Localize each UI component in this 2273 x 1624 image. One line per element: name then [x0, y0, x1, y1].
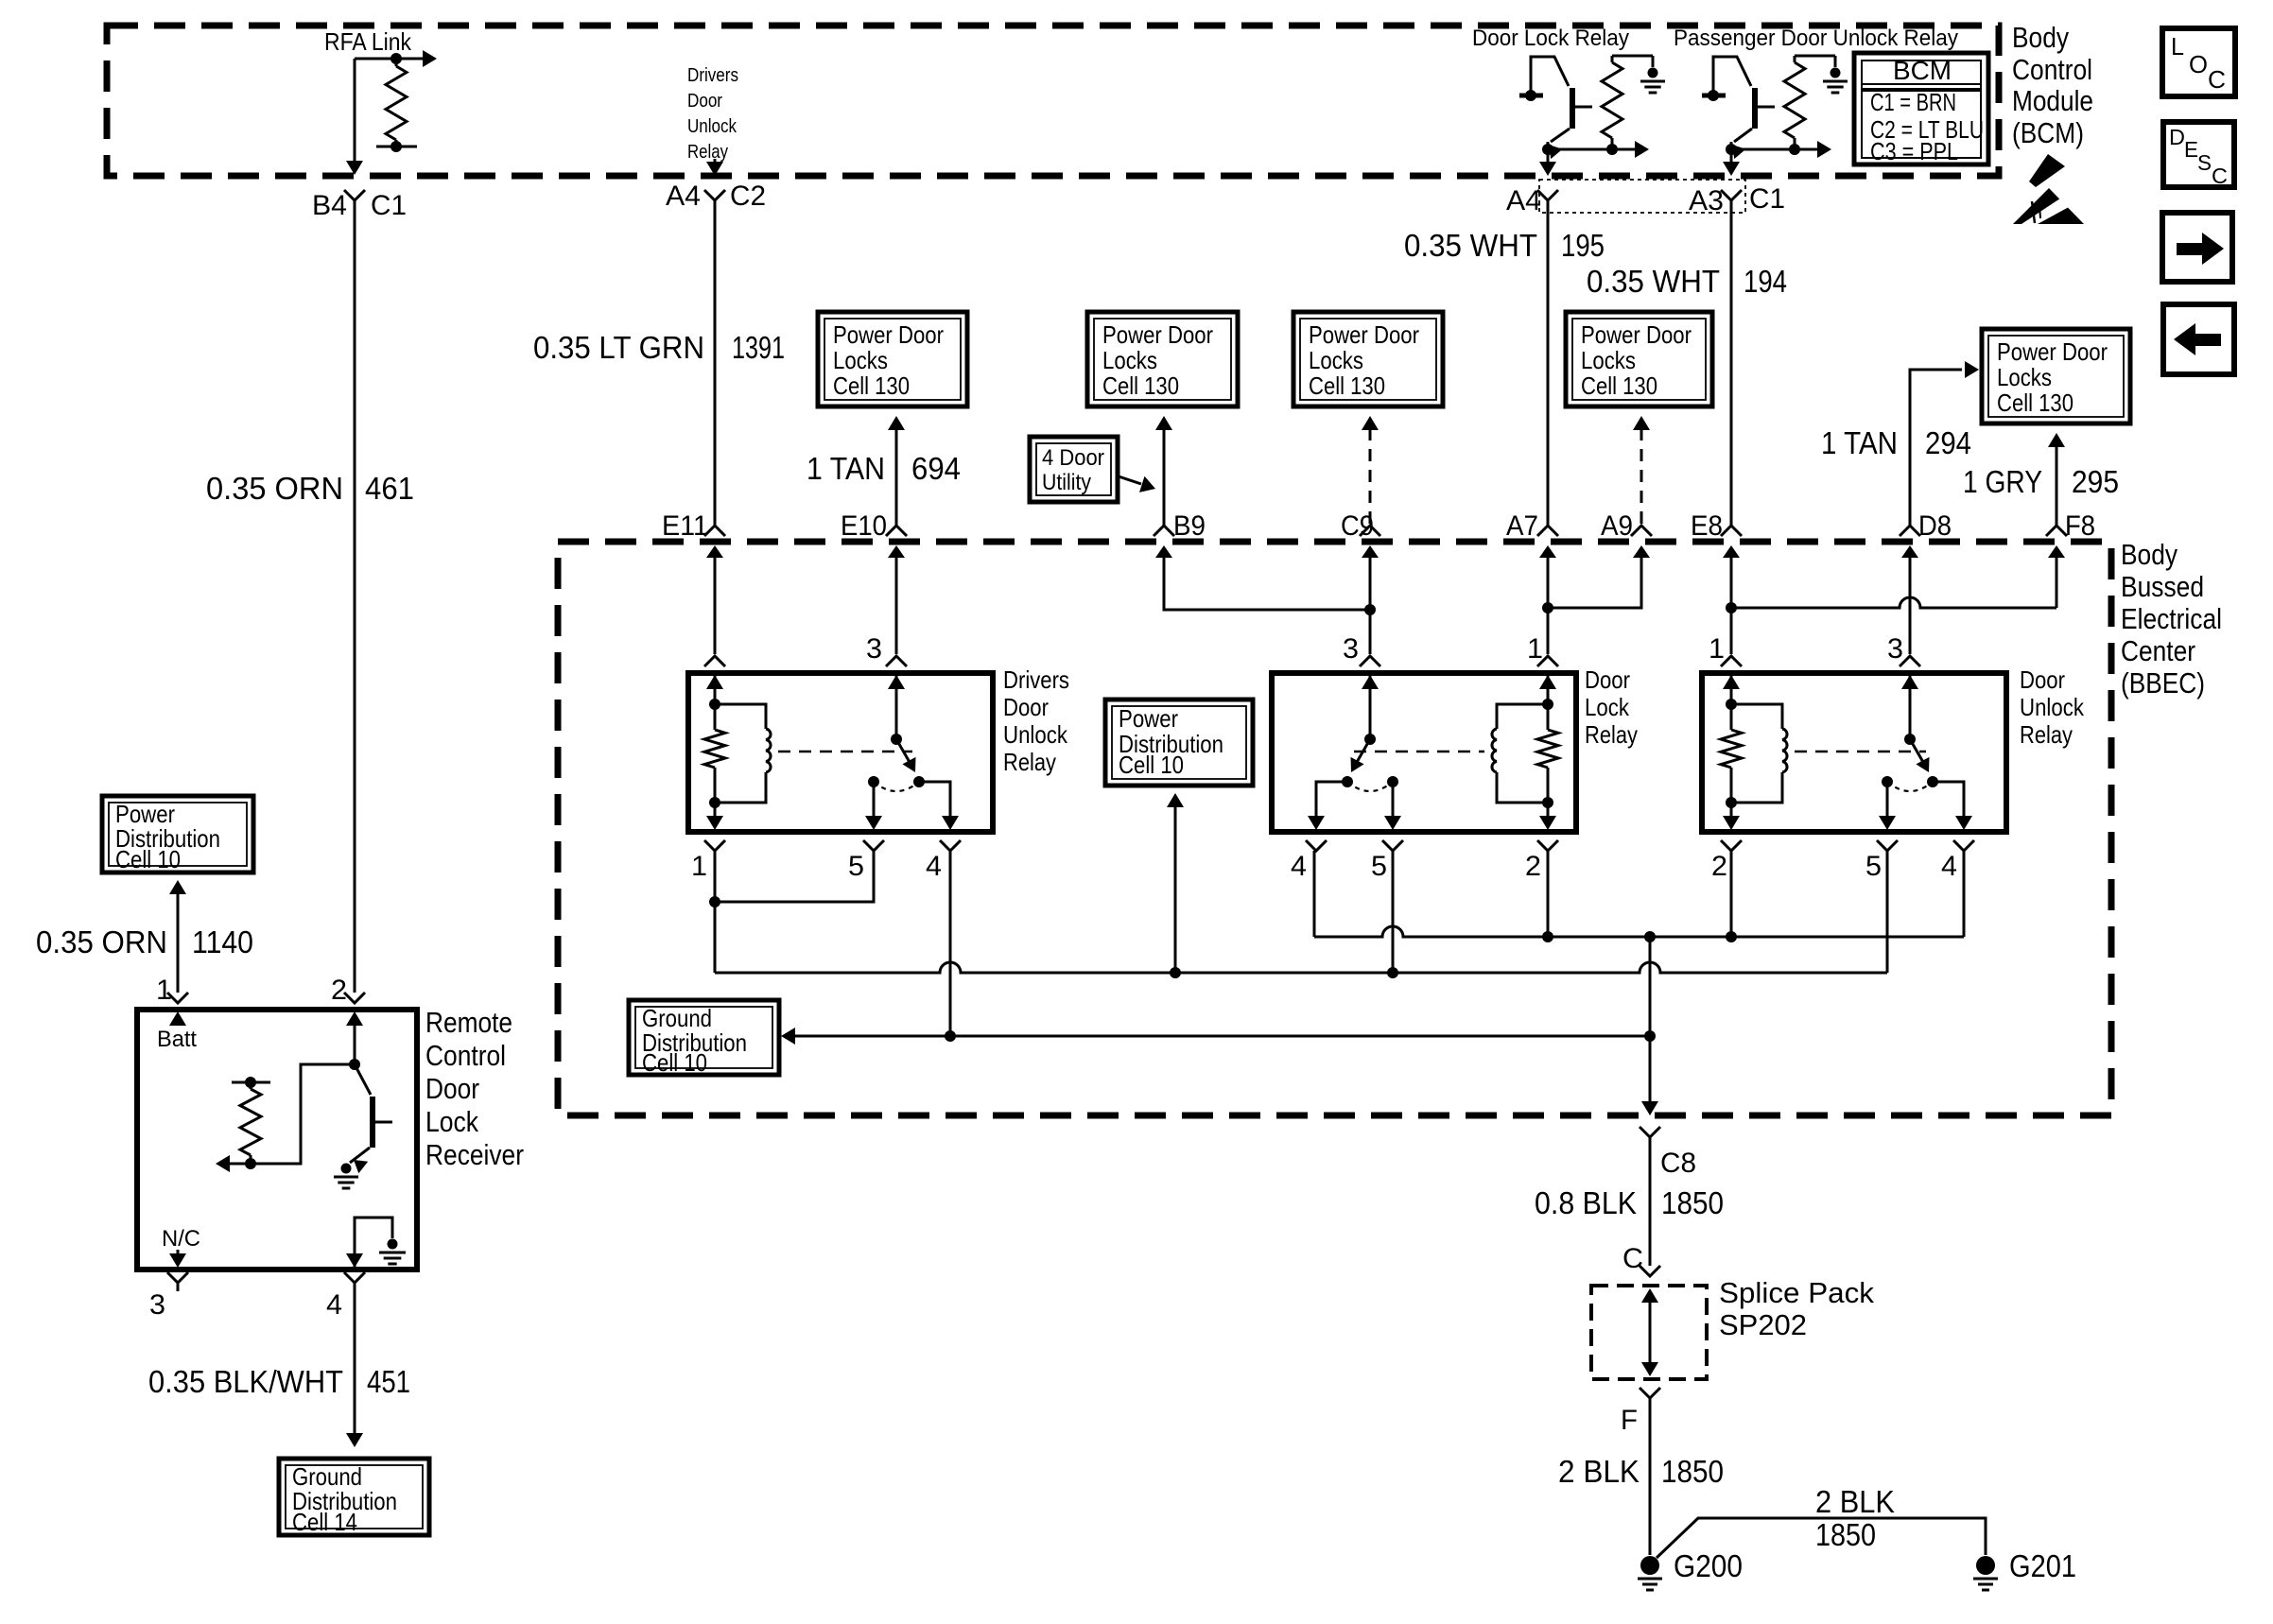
- wire 1391 from C2 to BBEC E11: [714, 200, 717, 526]
- receiver pin4 ground hook: [355, 1218, 392, 1268]
- svg-text:Module: Module: [2012, 84, 2093, 117]
- svg-text:Remote: Remote: [425, 1006, 512, 1039]
- transistor Q1 Door Lock Relay driver: [1519, 57, 1612, 176]
- svg-text:0.8 BLK: 0.8 BLK: [1535, 1185, 1637, 1220]
- wire Power Distribution feed: [1167, 793, 1184, 973]
- wire D8 to Power Door Locks (1 TAN 294): [1910, 361, 1979, 526]
- resistor R2 (Q2 collector pull): [1784, 56, 1805, 155]
- Power Door Locks Cell 130 box (E10): [818, 312, 967, 406]
- left arrow icon: [2174, 323, 2221, 355]
- svg-text:Body: Body: [2012, 21, 2069, 54]
- svg-text:1 GRY: 1 GRY: [1963, 464, 2042, 499]
- svg-text:Unlock: Unlock: [687, 116, 737, 137]
- wire K3 pin4 down (line1 end): [1963, 851, 1966, 937]
- wire E8 down: [1730, 553, 1733, 608]
- relay K3 Door Unlock Relay pin label 3 top: [1887, 633, 1903, 665]
- svg-text:Drivers: Drivers: [1003, 665, 1069, 694]
- svg-text:451: 451: [367, 1364, 410, 1399]
- svg-text:RFA Link: RFA Link: [324, 27, 412, 56]
- svg-text:G201: G201: [2009, 1548, 2076, 1583]
- Ground Distribution Cell 14 box: [279, 1459, 429, 1536]
- wire K3 pin5 down (line2 end): [1886, 851, 1889, 973]
- arrow into BCM boundary at B4: [346, 161, 363, 175]
- wire R3 to Q3 collector: [251, 1064, 355, 1164]
- relay K2 Door Lock Relay contact throw arc: [1347, 782, 1393, 791]
- connector F: [1640, 1388, 1660, 1398]
- svg-text:461: 461: [365, 471, 414, 506]
- pin label A3: [1689, 185, 1724, 216]
- connector A4 C2: [704, 190, 725, 200]
- relay K3 Door Unlock Relay pin5 connector: [1877, 840, 1898, 851]
- svg-text:Locks: Locks: [1581, 346, 1636, 374]
- svg-text:4: 4: [1291, 851, 1307, 882]
- wire label 0.35 BLK/WHT 451: [148, 1364, 410, 1399]
- wire G200 to G201: [1657, 1518, 1986, 1558]
- svg-text:694: 694: [911, 451, 961, 486]
- svg-text:A4: A4: [1506, 185, 1541, 216]
- relay K1 Drivers Door Unlock Relay switch: [886, 656, 916, 772]
- pin label 1 (receiver): [156, 975, 172, 1006]
- node line3-C8 junction: [1644, 1030, 1656, 1042]
- svg-text:Lock: Lock: [425, 1105, 478, 1138]
- relay K3 Door Unlock Relay switch: [1900, 656, 1930, 772]
- wire R2 top: [1795, 56, 1835, 67]
- node line3-K1pin4 junction: [945, 1030, 956, 1042]
- receiver pin3 exit arrow: [169, 1250, 186, 1268]
- resistor RFA link: [386, 59, 407, 147]
- svg-text:1 TAN: 1 TAN: [807, 451, 885, 486]
- svg-text:0.35 BLK/WHT: 0.35 BLK/WHT: [148, 1364, 343, 1399]
- svg-text:Cell 10: Cell 10: [1119, 751, 1184, 779]
- Ground Distribution Cell 10 box (BBEC): [629, 1000, 779, 1077]
- relay K1 Drivers Door Unlock Relay coil bottom connector: [704, 840, 725, 851]
- resistor R1 (Q1 collector pull): [1602, 56, 1622, 155]
- pin label 4 (receiver): [326, 1289, 342, 1321]
- connector receiver pin2: [344, 993, 365, 1003]
- svg-text:1: 1: [156, 975, 172, 1006]
- svg-text:0.35 ORN: 0.35 ORN: [36, 924, 167, 959]
- wire 1140 to Power Distribution: [169, 880, 186, 993]
- DESC letters: [2169, 125, 2228, 188]
- relay K3 Door Unlock Relay box: [1702, 673, 2006, 832]
- wire label 1850 (right): [1815, 1517, 1876, 1552]
- svg-text:(BBEC): (BBEC): [2121, 666, 2205, 700]
- svg-text:C: C: [1622, 1243, 1643, 1274]
- svg-text:Locks: Locks: [1309, 346, 1363, 374]
- svg-text:Unlock: Unlock: [2020, 693, 2085, 721]
- connector receiver pin1: [167, 993, 188, 1003]
- relay K1 Drivers Door Unlock Relay box: [688, 673, 993, 832]
- svg-text:1850: 1850: [1815, 1517, 1876, 1552]
- relay K1 Drivers Door Unlock Relay name label: [1003, 665, 1069, 776]
- pin label D8: [1918, 510, 1952, 542]
- relay K1 Drivers Door Unlock Relay pin label 5 bottom: [848, 851, 864, 882]
- svg-text:E: E: [2184, 137, 2198, 162]
- svg-text:4 Door: 4 Door: [1042, 445, 1104, 471]
- svg-text:SP202: SP202: [1719, 1308, 1807, 1341]
- Power Door Locks Cell 130 box (B9): [1087, 312, 1238, 406]
- Splice Pack SP202 dashed box: [1591, 1286, 1707, 1379]
- svg-text:1391: 1391: [732, 330, 785, 365]
- resistor R3 receiver: [232, 1077, 270, 1164]
- svg-text:Relay: Relay: [687, 142, 728, 163]
- relay K2 Door Lock Relay pin5 connector: [1382, 840, 1403, 851]
- node line2-K2pin5 junction: [1387, 967, 1398, 978]
- pin label N/C: [162, 1226, 200, 1252]
- 4 Door Utility box: [1030, 437, 1118, 502]
- arrow RFA link to right: [396, 50, 437, 67]
- relay K3 Door Unlock Relay coil bottom connector: [1721, 840, 1742, 851]
- wire B9 down and over to C9: [1164, 553, 1370, 610]
- relay K3 Door Unlock Relay contact throw arc: [1887, 782, 1933, 791]
- pin label C (splice in): [1622, 1243, 1643, 1274]
- bus line1 (K2 pin4 to K3 pin4) with hops: [1314, 926, 1964, 937]
- wire K1 pin4 down: [949, 851, 952, 1036]
- svg-text:B4: B4: [312, 190, 347, 221]
- BCM module name label: [2012, 21, 2093, 149]
- relay K1 Drivers Door Unlock Relay pin5 wire: [865, 782, 882, 830]
- svg-text:5: 5: [1371, 851, 1387, 882]
- svg-text:2: 2: [331, 975, 347, 1006]
- ground G-Q3: [334, 1164, 358, 1189]
- bus line2 (K1 pin1 to K3 pin5) with hops: [715, 962, 1887, 973]
- node line1-C8 junction: [1644, 931, 1656, 942]
- node RFA junction: [390, 53, 402, 64]
- svg-text:C: C: [2212, 164, 2228, 188]
- svg-text:O: O: [2189, 50, 2208, 78]
- svg-text:5: 5: [1865, 851, 1882, 882]
- ground label G201: [2009, 1548, 2076, 1583]
- Power Door Locks Cell 130 box (A9): [1566, 312, 1712, 406]
- relay K2 Door Lock Relay pin label 1 top: [1527, 633, 1543, 665]
- relay K2 Door Lock Relay pin5 wire: [1384, 782, 1401, 830]
- svg-text:D: D: [2169, 125, 2185, 149]
- node B9-C9 junction: [1364, 604, 1376, 615]
- right arrow box: [2162, 213, 2232, 282]
- wire E10 to Power Door Locks: [888, 416, 905, 526]
- wire R1 top: [1612, 56, 1653, 67]
- node E8 junction: [1726, 602, 1737, 613]
- svg-text:Splice Pack: Splice Pack: [1719, 1276, 1875, 1309]
- relay K3 Door Unlock Relay linkage dashed: [1795, 751, 1926, 753]
- svg-text:Control: Control: [2012, 53, 2092, 86]
- wire inside splice pack: [1641, 1288, 1658, 1376]
- svg-text:294: 294: [1925, 425, 1971, 460]
- wire B9 to Power Door Locks: [1155, 416, 1172, 526]
- svg-text:C1: C1: [371, 190, 407, 221]
- relay K2 Door Lock Relay coil bottom connector: [1537, 840, 1558, 851]
- svg-text:Receiver: Receiver: [425, 1138, 524, 1171]
- svg-text:F8: F8: [2065, 510, 2095, 542]
- connector C8 (BBEC bottom): [1640, 1127, 1660, 1137]
- pin label A4 (BCM): [1506, 185, 1541, 216]
- svg-text:Power Door: Power Door: [833, 320, 944, 349]
- wire label 0.8 BLK 1850: [1535, 1185, 1724, 1220]
- relay K3 Door Unlock Relay pin label 2 bottom: [1711, 851, 1727, 882]
- svg-text:0.35 ORN: 0.35 ORN: [206, 471, 343, 506]
- svg-text:C2: C2: [730, 181, 766, 212]
- node R3 bottom: [245, 1158, 256, 1169]
- svg-text:1850: 1850: [1661, 1454, 1724, 1489]
- BCM table row C3: [1870, 137, 1958, 165]
- pin label 2 (receiver): [331, 975, 347, 1006]
- svg-text:Body: Body: [2121, 538, 2178, 571]
- svg-text:(BCM): (BCM): [2012, 116, 2084, 149]
- svg-text:Door: Door: [425, 1072, 479, 1105]
- wire K1 pin5 link: [715, 851, 874, 902]
- wire D8 down to Door Unlock Relay pin 3: [1909, 553, 1912, 654]
- Power Door Locks Cell 130 box (C9): [1293, 312, 1443, 406]
- relay K1 Drivers Door Unlock Relay pin label 3 top: [866, 633, 882, 665]
- relay K1 Drivers Door Unlock Relay pin4 connector: [940, 840, 961, 851]
- svg-text:0.35 WHT: 0.35 WHT: [1404, 228, 1537, 263]
- wire C9 dashed to Power Door Locks: [1362, 416, 1379, 526]
- relay K3 Door Unlock Relay coil+resistor: [1721, 656, 1787, 830]
- svg-text:3: 3: [1343, 633, 1359, 665]
- left arrow box: [2163, 304, 2234, 374]
- wire label 0.35 WHT 194: [1587, 264, 1787, 299]
- svg-text:Door: Door: [1003, 693, 1049, 721]
- BCM Passenger Door Unlock Relay label: [1674, 26, 1958, 51]
- svg-text:E11: E11: [662, 510, 708, 542]
- svg-text:Door: Door: [2020, 665, 2065, 694]
- svg-text:Cell 130: Cell 130: [1309, 371, 1385, 400]
- svg-text:C: C: [2208, 65, 2226, 94]
- svg-text:F: F: [1621, 1405, 1638, 1436]
- relay K3 Door Unlock Relay name label: [2020, 665, 2085, 749]
- relay K2 Door Lock Relay box: [1272, 673, 1576, 832]
- pin label C1 (BCM): [1749, 183, 1785, 215]
- svg-text:Cell 130: Cell 130: [833, 371, 910, 400]
- BCM Door Lock Relay label: [1472, 26, 1629, 51]
- relay K1 Drivers Door Unlock Relay pin label 4 bottom: [926, 851, 942, 882]
- connector C9 (BBEC top): [1360, 526, 1380, 560]
- ground G-pin4: [379, 1239, 406, 1265]
- svg-text:S: S: [2197, 150, 2212, 175]
- svg-text:4: 4: [326, 1289, 342, 1321]
- svg-text:B9: B9: [1173, 510, 1206, 542]
- ground G201: [1973, 1556, 1998, 1590]
- right arrow icon: [2177, 233, 2224, 265]
- transistor Q2 Passenger Door Unlock Relay driver: [1702, 57, 1795, 176]
- connector D8 (BBEC top): [1900, 526, 1920, 560]
- connector E8 (BBEC top): [1721, 526, 1742, 560]
- receiver pin1 entry arrow: [169, 1011, 186, 1026]
- BBEC module name label: [2121, 538, 2222, 700]
- ground G-Q1: [1640, 68, 1665, 94]
- relay K2 Door Lock Relay pin label 4 bottom: [1291, 851, 1307, 882]
- wire Q2 output arrow: [1795, 141, 1831, 158]
- wire A9 link: [1548, 553, 1641, 608]
- transistor Q3 receiver: [350, 1064, 392, 1173]
- pin label A7: [1506, 510, 1538, 542]
- relay K3 Door Unlock Relay pin label 1 top: [1709, 633, 1725, 665]
- svg-text:4: 4: [926, 851, 942, 882]
- 4 Door Utility pointer arrow: [1119, 476, 1155, 492]
- relay K3 Door Unlock Relay pin4 connector: [1953, 840, 1974, 851]
- svg-text:Locks: Locks: [833, 346, 888, 374]
- wire label 0.35 WHT 195: [1404, 228, 1605, 263]
- connector A7 (BBEC top): [1537, 526, 1558, 560]
- pin label C9: [1341, 510, 1374, 542]
- wire K1 pin1 down: [714, 851, 717, 973]
- relay K1 Drivers Door Unlock Relay pin4 wire: [919, 782, 959, 830]
- DESC reference box: [2163, 122, 2234, 187]
- svg-text:3: 3: [149, 1289, 165, 1321]
- svg-text:Cell 14: Cell 14: [292, 1508, 357, 1536]
- relay K2 Door Lock Relay name label: [1585, 665, 1638, 749]
- wire label 2 BLK (right): [1815, 1484, 1895, 1519]
- wire F8 to Power Door Locks (1 GRY 295): [2048, 433, 2065, 526]
- connector A9 (BBEC top): [1631, 526, 1652, 560]
- svg-text:C1 = BRN: C1 = BRN: [1870, 88, 1956, 116]
- node line1-K2pin2 junction: [1542, 931, 1553, 942]
- wire RFA horizontal: [355, 58, 396, 60]
- svg-text:Control: Control: [425, 1039, 506, 1072]
- svg-text:3: 3: [1887, 633, 1903, 665]
- wire E8 to F8 link with hop over D8: [1731, 597, 2056, 608]
- svg-text:Batt: Batt: [157, 1027, 197, 1052]
- svg-text:1: 1: [1709, 633, 1725, 665]
- connector E11 (BBEC top): [704, 526, 725, 560]
- svg-text:Locks: Locks: [1997, 363, 2052, 391]
- relay K2 Door Lock Relay switch: [1351, 656, 1381, 772]
- svg-text:195: 195: [1561, 228, 1605, 263]
- ground G-Q2: [1823, 68, 1848, 94]
- wire K3 pin2 down: [1730, 851, 1733, 937]
- wire E8 to Door Unlock Relay pin 1: [1730, 608, 1733, 654]
- svg-text:G200: G200: [1674, 1548, 1743, 1583]
- pin label F8: [2065, 510, 2095, 542]
- svg-text:D8: D8: [1918, 510, 1952, 542]
- svg-text:Utility: Utility: [1042, 470, 1091, 495]
- ground label G200: [1674, 1548, 1743, 1583]
- svg-text:Door: Door: [687, 91, 722, 112]
- svg-text:1850: 1850: [1661, 1185, 1724, 1220]
- receiver pin2 entry arrow: [346, 1011, 363, 1064]
- svg-text:Cell 130: Cell 130: [1581, 371, 1657, 400]
- pin label A9: [1601, 510, 1633, 542]
- svg-text:A9: A9: [1601, 510, 1633, 542]
- svg-text:Relay: Relay: [2020, 720, 2073, 749]
- svg-text:4: 4: [1941, 851, 1957, 882]
- BCM connector table box: [1854, 53, 1988, 164]
- relay K1 Drivers Door Unlock Relay pin5 connector: [863, 840, 884, 851]
- svg-text:Cell 130: Cell 130: [1997, 389, 2073, 417]
- svg-text:Drivers: Drivers: [687, 65, 738, 86]
- pin label A4 (C2 connector): [666, 181, 701, 212]
- connector B9 (BBEC top): [1154, 526, 1174, 560]
- relay K2 Door Lock Relay linkage dashed: [1354, 751, 1484, 753]
- pin label C8: [1660, 1148, 1696, 1179]
- wire E11 into relay: [714, 553, 717, 654]
- arrow R3 output left: [216, 1155, 251, 1172]
- node A7-A9 junction: [1542, 602, 1553, 613]
- wire label 0.35 LT GRN 1391: [533, 330, 785, 365]
- wire label 0.35 ORN 1140: [36, 924, 253, 959]
- svg-text:0.35 WHT: 0.35 WHT: [1587, 264, 1720, 299]
- relay K1 Drivers Door Unlock Relay pin label 1 bottom: [691, 851, 707, 882]
- svg-text:5: 5: [848, 851, 864, 882]
- RFA Link label: [324, 27, 412, 56]
- svg-text:Door Lock Relay: Door Lock Relay: [1472, 26, 1629, 51]
- svg-text:1: 1: [691, 851, 707, 882]
- BCM table title: [1893, 56, 1952, 85]
- relay K2 Door Lock Relay pin label 5 bottom: [1371, 851, 1387, 882]
- svg-text:Passenger Door Unlock Relay: Passenger Door Unlock Relay: [1674, 26, 1958, 51]
- wire 461 from C1 to receiver: [354, 200, 356, 993]
- svg-text:1140: 1140: [192, 924, 253, 959]
- wire A7 down: [1547, 553, 1550, 608]
- svg-text:295: 295: [2072, 464, 2119, 499]
- relay K3 Door Unlock Relay pin5 wire: [1879, 782, 1896, 830]
- svg-text:1: 1: [1527, 633, 1543, 665]
- BCM table row C1: [1870, 88, 1956, 116]
- svg-text:Power Door: Power Door: [1102, 320, 1213, 349]
- svg-text:Relay: Relay: [1003, 748, 1056, 776]
- wire A7 to Door Lock Relay pin 1: [1547, 608, 1550, 654]
- svg-text:L: L: [2171, 32, 2184, 60]
- svg-text:C3 = PPL: C3 = PPL: [1870, 137, 1958, 165]
- relay K3 Door Unlock Relay pin label 5 bottom: [1865, 851, 1882, 882]
- connector A4 (BCM bottom): [1537, 190, 1558, 200]
- svg-text:Power Door: Power Door: [1309, 320, 1419, 349]
- connector B4 C1: [344, 190, 365, 200]
- relay K1 Drivers Door Unlock Relay coil+resistor: [704, 656, 771, 830]
- svg-text:Unlock: Unlock: [1003, 720, 1068, 749]
- svg-text:Cell 130: Cell 130: [1102, 371, 1179, 400]
- svg-text:Lock: Lock: [1585, 693, 1630, 721]
- svg-text:E8: E8: [1691, 510, 1723, 542]
- pin label E11: [662, 510, 708, 542]
- wire A9 dashed to Power Door Locks: [1633, 416, 1650, 526]
- Body Control Module (BCM) dashed outline: [107, 26, 1999, 176]
- wire 451 to Ground Distribution: [346, 1283, 363, 1447]
- node receiver collector junction: [349, 1059, 360, 1070]
- svg-text:A4: A4: [666, 181, 701, 212]
- connector receiver pin3: [167, 1272, 188, 1291]
- wire C8 drop: [1641, 937, 1658, 1115]
- node RFA resistor bottom: [390, 141, 402, 152]
- node K1 pin1/pin5 junction: [709, 896, 720, 907]
- connector F8 (BBEC top): [2046, 526, 2067, 560]
- wire RFA resistor bottom stub: [376, 146, 417, 148]
- svg-text:2 BLK: 2 BLK: [1815, 1484, 1895, 1519]
- svg-text:Bussed: Bussed: [2121, 570, 2204, 603]
- wire label 2 BLK 1850: [1558, 1454, 1724, 1489]
- svg-text:Power Door: Power Door: [1581, 320, 1692, 349]
- wire K2 pin5 down: [1392, 851, 1395, 973]
- relay K3 Door Unlock Relay pin label 4 bottom: [1941, 851, 1957, 882]
- Splice Pack label: [1719, 1276, 1875, 1341]
- LOC letters: [2171, 32, 2226, 94]
- ESD sensitivity symbol: [2013, 154, 2084, 224]
- svg-text:1 TAN: 1 TAN: [1821, 425, 1898, 460]
- relay K2 Door Lock Relay pin label 3 top: [1343, 633, 1359, 665]
- svg-text:A3: A3: [1689, 185, 1724, 216]
- relay K1 Drivers Door Unlock Relay contact throw arc: [874, 782, 919, 791]
- svg-text:C9: C9: [1341, 510, 1374, 542]
- wire 195 BCM A4 to BBEC A7: [1547, 200, 1550, 526]
- connector dotted group A4-A3: [1539, 180, 1745, 213]
- connector A3 C1 (BCM bottom): [1721, 190, 1742, 200]
- pin label C2: [730, 181, 766, 212]
- receiver name label: [425, 1006, 524, 1171]
- wire label 0.35 ORN 461: [206, 471, 414, 506]
- wire 194 BCM A3 to BBEC E8: [1730, 200, 1733, 526]
- wire Q1 output arrow: [1612, 141, 1649, 158]
- wire K2 pin2 down: [1547, 851, 1550, 937]
